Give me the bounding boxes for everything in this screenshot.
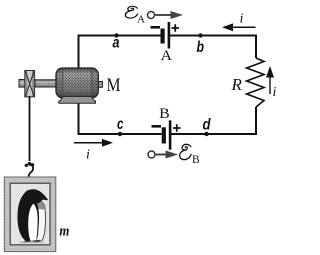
motor shaft left axle stub xyxy=(19,80,25,88)
svg-text:A: A xyxy=(161,48,173,64)
motor shaft xyxy=(35,80,57,87)
svg-text:b: b xyxy=(197,39,205,56)
svg-text:d: d xyxy=(203,116,212,133)
svg-text:A: A xyxy=(137,13,145,25)
node d xyxy=(203,116,212,136)
wire bottom xyxy=(78,133,258,135)
node a xyxy=(113,33,120,51)
picture frame xyxy=(4,177,56,252)
motor base xyxy=(59,97,96,104)
wire left lower xyxy=(78,96,80,134)
battery B xyxy=(152,120,181,149)
emf label B (script E with subscript B) xyxy=(180,144,200,165)
penguin chick xyxy=(33,201,45,241)
svg-text:B: B xyxy=(192,154,200,166)
motor right stub xyxy=(98,82,102,88)
emf A direction arrow xyxy=(148,11,184,19)
battery A xyxy=(151,22,180,49)
wire left upper xyxy=(78,35,80,72)
wire top xyxy=(78,35,257,37)
svg-text:i: i xyxy=(273,85,277,100)
svg-text:m: m xyxy=(59,223,69,239)
node b xyxy=(197,33,205,56)
wire right xyxy=(255,35,257,135)
motor M body xyxy=(56,68,98,98)
pulley xyxy=(25,71,35,97)
svg-text:i: i xyxy=(240,12,244,27)
svg-text:R: R xyxy=(231,75,243,94)
svg-text:M: M xyxy=(107,75,121,96)
penguin adult xyxy=(18,189,49,242)
current arrow i bottom xyxy=(74,139,113,163)
string xyxy=(29,96,31,161)
emf B direction arrow xyxy=(148,151,178,159)
node c xyxy=(117,116,124,136)
svg-text:i: i xyxy=(86,148,90,163)
svg-text:a: a xyxy=(113,35,120,52)
hook xyxy=(25,162,35,177)
svg-text:B: B xyxy=(159,106,170,122)
resistor R xyxy=(247,58,265,107)
svg-text:c: c xyxy=(117,116,124,133)
current arrow i at resistor xyxy=(266,66,277,100)
emf label A (script E with subscript A) xyxy=(125,6,145,25)
current arrow i top xyxy=(222,12,256,32)
